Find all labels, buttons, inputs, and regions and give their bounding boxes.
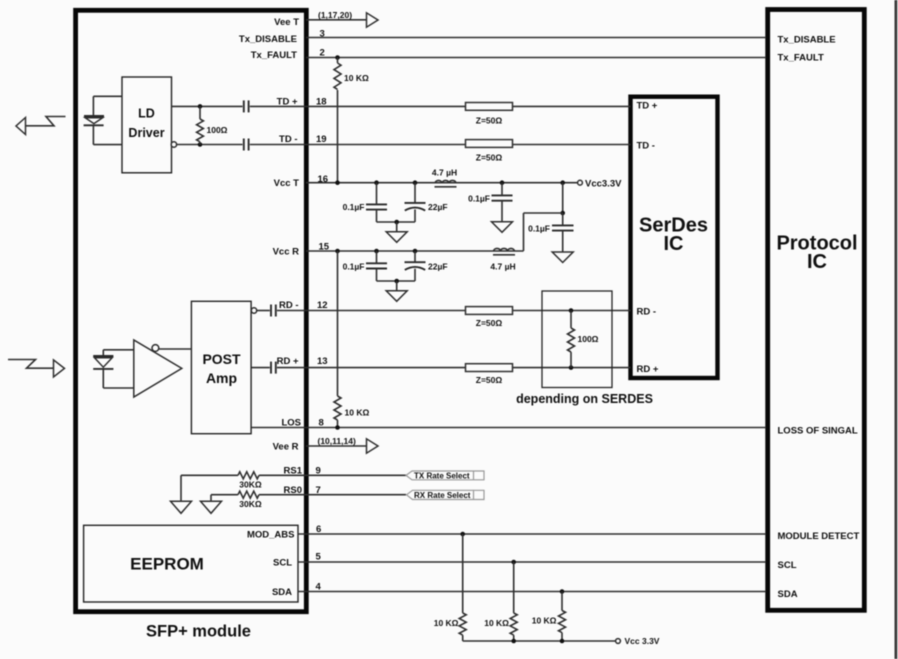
svg-text:22µF: 22µF — [428, 261, 448, 271]
ground RS0 — [201, 495, 222, 514]
svg-text:Z=50Ω: Z=50Ω — [476, 318, 503, 328]
transmission line Z=50 RD- — [466, 307, 513, 328]
capacitor series TD- — [244, 139, 249, 151]
wire TD- — [171, 142, 630, 147]
svg-text:3: 3 — [320, 29, 325, 40]
wire VccT rail — [306, 182, 578, 184]
svg-text:TD -: TD - — [637, 141, 655, 152]
net flag TX Rate Select — [406, 471, 484, 480]
inductor 4.7uH VccR — [490, 248, 515, 271]
svg-text:TD +: TD + — [637, 101, 658, 112]
resistor 10K pull-up LOS — [334, 251, 369, 428]
node MOD_ABS junction — [460, 532, 465, 537]
svg-text:(1,17,20): (1,17,20) — [318, 10, 352, 20]
svg-text:100Ω: 100Ω — [578, 334, 599, 344]
wire RD- — [251, 308, 630, 313]
op-amp receiver — [134, 340, 192, 397]
wire RS0 — [211, 494, 406, 496]
svg-text:Tx_FAULT: Tx_FAULT — [251, 50, 297, 61]
wire VeeT pin1 — [306, 19, 367, 21]
svg-text:LOSS OF SINGAL: LOSS OF SINGAL — [778, 426, 858, 437]
node SCL junction — [511, 560, 516, 565]
svg-text:0.1µF: 0.1µF — [343, 261, 365, 271]
ground VccR branch cap — [552, 252, 573, 263]
svg-text:Vee R: Vee R — [273, 442, 299, 453]
svg-text:Z=50Ω: Z=50Ω — [476, 375, 503, 385]
svg-text:10 KΩ: 10 KΩ — [532, 616, 557, 626]
svg-text:Tx_DISABLE: Tx_DISABLE — [239, 34, 297, 45]
block POST Amp — [191, 301, 251, 433]
svg-text:MODULE DETECT: MODULE DETECT — [778, 531, 860, 542]
svg-text:8: 8 — [319, 417, 324, 428]
svg-text:RS0: RS0 — [284, 485, 302, 496]
svg-text:EEPROM: EEPROM — [130, 555, 204, 574]
svg-text:(10,11,14): (10,11,14) — [318, 436, 356, 446]
svg-text:10 KΩ: 10 KΩ — [344, 73, 369, 83]
svg-text:10 KΩ: 10 KΩ — [484, 618, 509, 628]
svg-text:Vee T: Vee T — [274, 17, 299, 28]
wire VccR rail — [306, 250, 524, 252]
node SDA junction — [560, 589, 565, 594]
wire LOS — [252, 427, 767, 429]
svg-text:TD -: TD - — [279, 134, 297, 145]
block EEPROM — [84, 525, 298, 602]
svg-text:SFP+ module: SFP+ module — [146, 623, 251, 641]
svg-text:RD -: RD - — [637, 307, 657, 318]
svg-text:4: 4 — [316, 582, 322, 593]
svg-text:5: 5 — [316, 552, 322, 563]
svg-text:IC: IC — [807, 251, 827, 273]
svg-text:RS1: RS1 — [284, 465, 303, 476]
svg-text:MOD_ABS: MOD_ABS — [247, 530, 295, 541]
wire MOD_ABS — [298, 533, 766, 535]
wire TD+ — [172, 105, 631, 107]
svg-text:Amp: Amp — [206, 370, 237, 386]
svg-text:16: 16 — [318, 174, 329, 185]
svg-text:depending on SERDES: depending on SERDES — [516, 392, 653, 406]
svg-text:Driver: Driver — [128, 126, 164, 140]
transmission line Z=50 TD+ — [466, 103, 513, 126]
svg-text:TD +: TD + — [277, 96, 298, 107]
laser diode — [84, 96, 122, 144]
IC Protocol caption — [776, 233, 857, 274]
svg-text:Tx_FAULT: Tx_FAULT — [778, 53, 824, 64]
svg-text:SCL: SCL — [273, 558, 292, 569]
svg-text:19: 19 — [316, 134, 327, 145]
svg-text:RD +: RD + — [637, 364, 659, 375]
resistor 30K RS0 — [238, 491, 262, 509]
svg-text:100Ω: 100Ω — [207, 125, 228, 135]
svg-text:TX Rate Select: TX Rate Select — [414, 471, 470, 480]
box depending on SERDES — [516, 291, 653, 406]
svg-text:SCL: SCL — [778, 560, 797, 571]
svg-text:15: 15 — [319, 241, 330, 252]
svg-text:18: 18 — [316, 96, 327, 107]
svg-text:6: 6 — [316, 524, 321, 535]
svg-text:RD +: RD + — [277, 356, 299, 367]
wire VccR jog up — [524, 213, 563, 251]
capacitor 22uF row2 — [405, 249, 448, 281]
svg-text:13: 13 — [317, 356, 328, 367]
terminal Vcc3.3V top — [578, 178, 623, 189]
svg-text:0.1µF: 0.1µF — [343, 202, 365, 212]
svg-text:30KΩ: 30KΩ — [239, 499, 262, 509]
svg-text:RX Rate Select: RX Rate Select — [414, 491, 471, 500]
resistor 10K pull-up Tx_FAULT — [334, 58, 369, 183]
svg-text:4.7 µH: 4.7 µH — [490, 261, 515, 271]
svg-text:Vcc R: Vcc R — [273, 247, 300, 258]
transmission line Z=50 RD+ — [466, 364, 513, 385]
photodiode — [93, 350, 134, 388]
svg-text:POST: POST — [202, 351, 241, 367]
optical TX arrow — [16, 117, 66, 135]
IC SerDes caption — [639, 215, 708, 256]
wire RS1 — [181, 474, 406, 476]
capacitor 0.1uF after inductor — [468, 180, 512, 221]
svg-text:LD: LD — [138, 107, 155, 121]
resistor 10K pull-up SDA — [532, 592, 566, 642]
block LD Driver — [122, 77, 172, 173]
wire Tx_FAULT — [306, 57, 766, 59]
svg-text:9: 9 — [316, 465, 321, 476]
wire Tx_DISABLE — [306, 37, 766, 39]
capacitor series RD+ — [271, 362, 276, 374]
wire Vcc3.3V bottom rail — [463, 639, 616, 644]
svg-text:Z=50Ω: Z=50Ω — [476, 153, 503, 163]
net flag RX Rate Select — [407, 490, 485, 500]
capacitor 22uF row1 — [405, 180, 448, 222]
svg-text:SDA: SDA — [272, 587, 292, 598]
svg-text:Tx_DISABLE: Tx_DISABLE — [778, 34, 836, 45]
resistor 10K pull-up MOD_ABS — [434, 534, 466, 641]
node VccR junction — [335, 249, 340, 254]
svg-text:IC: IC — [664, 233, 684, 255]
wire VeeR — [306, 445, 367, 447]
ground RS1 — [171, 475, 192, 513]
ground row2 caps — [377, 279, 416, 302]
frame right edge — [895, 0, 898, 659]
node LOS junction — [335, 425, 340, 430]
svg-text:4.7 µH: 4.7 µH — [432, 168, 457, 178]
svg-text:0.1µF: 0.1µF — [468, 193, 490, 203]
wire RD+ — [252, 367, 631, 369]
ground row1 caps — [377, 220, 416, 243]
svg-text:10 KΩ: 10 KΩ — [345, 407, 370, 417]
capacitor series TD+ — [244, 100, 249, 112]
capacitor 0.1uF row1 — [343, 180, 387, 222]
svg-text:Vcc3.3V: Vcc3.3V — [585, 178, 622, 189]
svg-text:Vcc T: Vcc T — [274, 178, 300, 189]
svg-text:SDA: SDA — [778, 589, 798, 600]
wire Vcc branch down — [560, 183, 565, 216]
node VccT junction — [335, 180, 340, 185]
wire SDA — [298, 591, 766, 593]
optical RX arrow — [8, 360, 65, 378]
resistor 30K RS1 — [238, 472, 262, 490]
svg-text:Vcc 3.3V: Vcc 3.3V — [625, 636, 660, 646]
terminal Vcc3.3V bottom — [616, 636, 660, 646]
svg-text:7: 7 — [316, 485, 321, 496]
node Vcc branch junction — [560, 180, 565, 185]
svg-text:Z=50Ω: Z=50Ω — [476, 116, 503, 126]
ground after-inductor cap — [492, 222, 513, 233]
net arrow VeeT — [367, 13, 379, 27]
svg-text:0.1µF: 0.1µF — [528, 224, 550, 234]
svg-text:22µF: 22µF — [428, 202, 448, 212]
resistor 100 ohm TD termination — [197, 104, 228, 147]
svg-text:10 KΩ: 10 KΩ — [434, 618, 459, 628]
module SFP+ outline — [76, 10, 307, 611]
capacitor 0.1uF VccR branch — [528, 213, 573, 252]
svg-text:12: 12 — [317, 300, 328, 311]
capacitor series RD- — [271, 305, 276, 317]
net arrow VeeR — [367, 439, 379, 453]
resistor 10K pull-up SCL — [484, 562, 517, 641]
wire SCL — [298, 561, 766, 563]
inductor 4.7uH VccT — [432, 168, 457, 187]
svg-text:30KΩ: 30KΩ — [239, 479, 262, 489]
resistor 100 ohm RD termination — [568, 308, 599, 370]
node Tx_FAULT junction — [335, 55, 340, 60]
svg-text:RD -: RD - — [279, 300, 299, 311]
svg-text:LOS: LOS — [281, 417, 301, 428]
svg-text:2: 2 — [320, 48, 325, 59]
transmission line Z=50 TD- — [466, 140, 513, 163]
capacitor 0.1uF row2 — [343, 249, 387, 281]
IC Protocol outline — [768, 10, 865, 611]
IC SerDes outline — [631, 97, 718, 378]
